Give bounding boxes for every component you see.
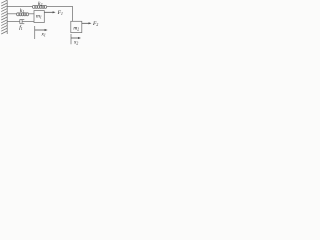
- spring k1: [17, 13, 29, 16]
- wire down to mass m2: [72, 6, 74, 21]
- wire wall to spring k2: [7, 5, 33, 7]
- wire spring k1 to mass m1: [29, 13, 34, 15]
- spring k2: [32, 5, 46, 8]
- reference line x1: [34, 26, 36, 39]
- mass m1: [34, 11, 44, 23]
- reference line x2: [70, 34, 72, 44]
- wall: [1, 0, 7, 34]
- wire wall to spring k1: [7, 13, 17, 15]
- displacement arrow x1: [35, 29, 48, 31]
- displacement arrow x2: [71, 37, 81, 39]
- mass m2: [71, 21, 82, 32]
- damper f: [20, 19, 25, 23]
- force arrow F2: [82, 22, 92, 24]
- wire spring k2 to corner: [47, 5, 73, 7]
- wire damper to mass m1: [22, 21, 34, 23]
- wire wall to damper: [7, 21, 20, 23]
- force arrow F1: [44, 11, 55, 13]
